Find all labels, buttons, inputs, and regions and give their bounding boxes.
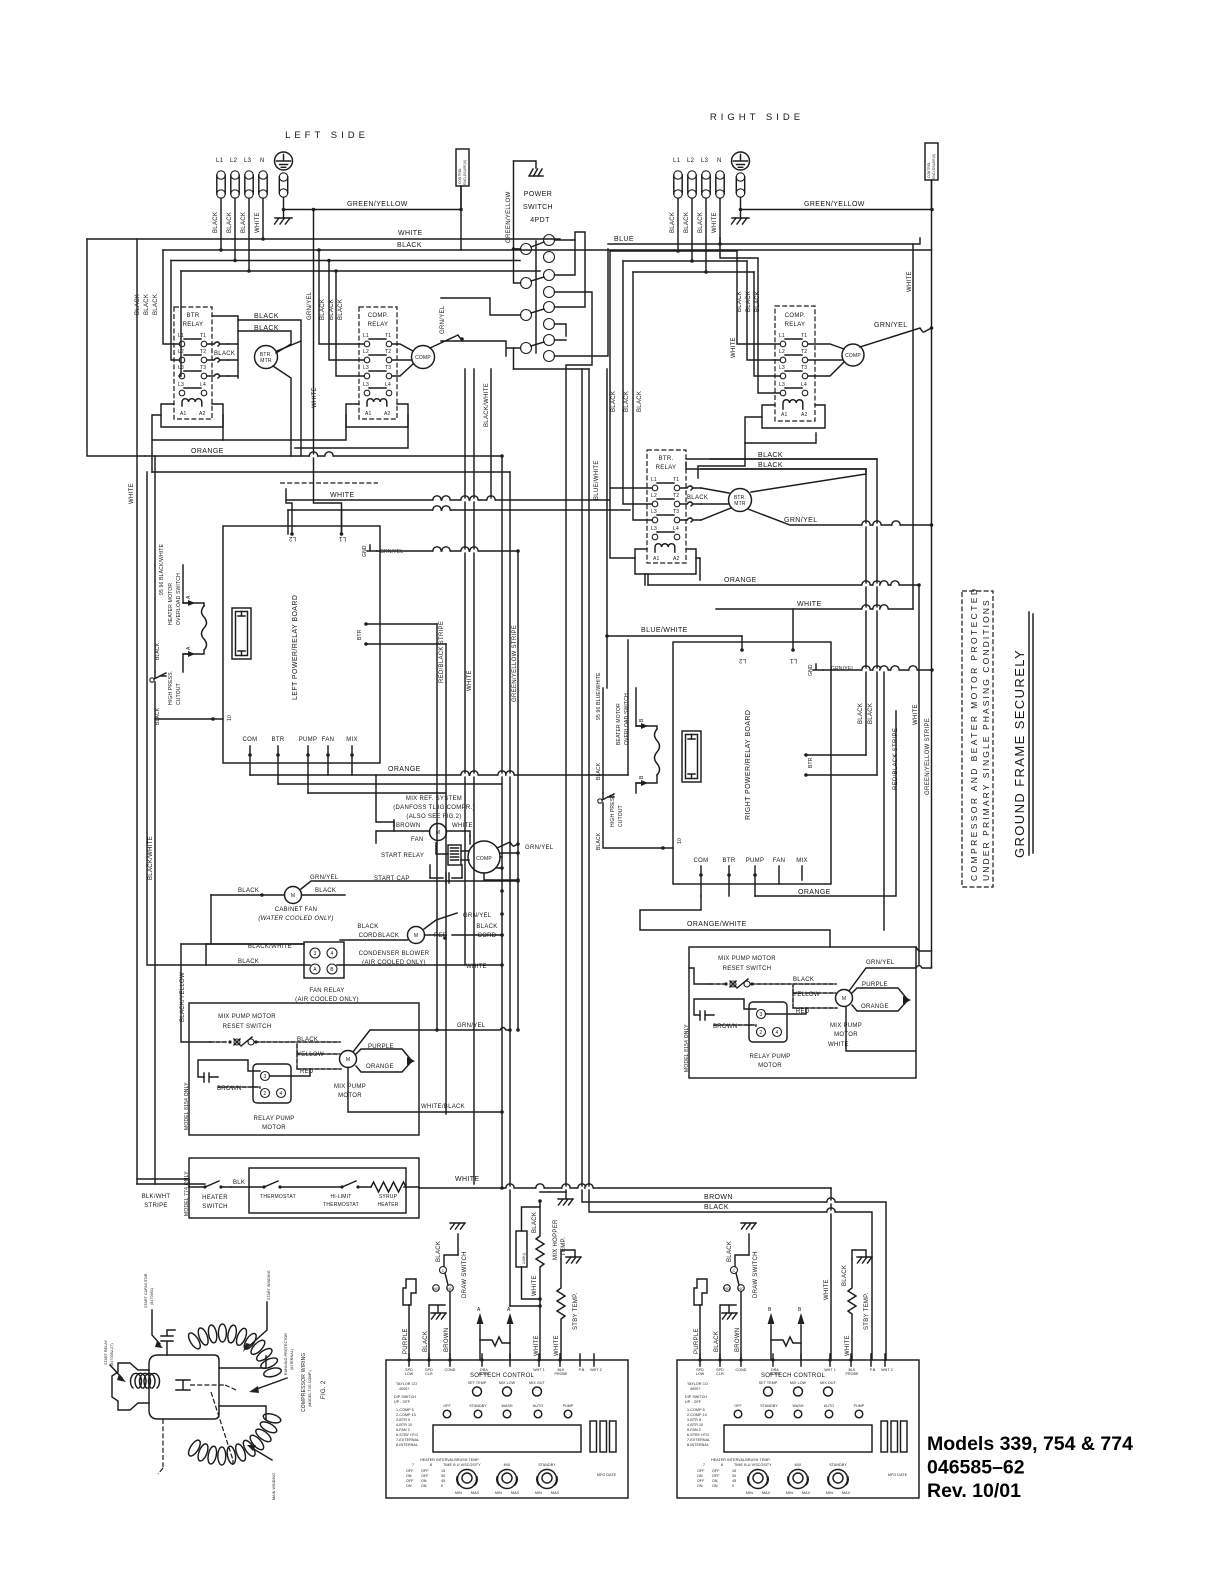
svg-text:L1: L1 bbox=[779, 333, 785, 339]
svg-text:MFG DATE: MFG DATE bbox=[597, 1473, 617, 1477]
svg-text:MODEL 8154 ONLY: MODEL 8154 ONLY bbox=[684, 1024, 690, 1072]
wire ORANGE (left relays) bbox=[145, 455, 502, 457]
knob mix bbox=[498, 1470, 517, 1489]
trunk BLK/WHT STRIPE (left) bbox=[154, 719, 156, 1184]
softech control panel (left) bbox=[386, 1354, 628, 1498]
svg-text:MTR: MTR bbox=[260, 358, 272, 364]
wire white out heater bbox=[406, 1112, 831, 1188]
svg-text:SET TEMP: SET TEMP bbox=[759, 1381, 778, 1385]
svg-text:1-COMP 5: 1-COMP 5 bbox=[687, 1408, 705, 1412]
panel terminals (left panel) bbox=[409, 1354, 594, 1366]
motor M mix pump (right) bbox=[836, 990, 853, 1007]
svg-text:MAX: MAX bbox=[842, 1491, 851, 1495]
coil BTR relay (right) bbox=[655, 544, 675, 552]
svg-text:RELAY: RELAY bbox=[785, 322, 806, 328]
svg-text:L3: L3 bbox=[363, 365, 369, 371]
svg-text:FAN: FAN bbox=[322, 737, 335, 743]
svg-text:TAYLOR CO: TAYLOR CO bbox=[687, 1382, 708, 1386]
svg-text:240K(): 240K() bbox=[522, 1253, 526, 1264]
svg-text:MIX PUMP MOTOR: MIX PUMP MOTOR bbox=[718, 956, 776, 962]
right mix grn/yel to trunk bbox=[916, 947, 932, 951]
svg-text:MTR: MTR bbox=[734, 501, 746, 507]
board outputs distribution (left) bbox=[250, 775, 628, 793]
svg-text:8: 8 bbox=[721, 1463, 723, 1467]
svg-text:T2: T2 bbox=[673, 493, 679, 499]
svg-text:OFF: OFF bbox=[734, 1404, 742, 1408]
svg-text:2: 2 bbox=[760, 1030, 763, 1036]
svg-text:MIX OUT: MIX OUT bbox=[820, 1381, 836, 1385]
svg-text:GRN/YEL: GRN/YEL bbox=[440, 305, 446, 334]
trunk WHITE (left outer) bbox=[136, 239, 138, 1184]
svg-text:BLACK: BLACK bbox=[254, 325, 279, 332]
trunk white right bbox=[912, 244, 914, 609]
wire condenser blower bbox=[340, 913, 502, 940]
svg-text:A: A bbox=[477, 1307, 481, 1313]
stby temp resistor (left softech) bbox=[557, 1259, 565, 1360]
svg-text:WHITE: WHITE bbox=[534, 1335, 540, 1356]
black wire + ground (left softech) bbox=[429, 1305, 445, 1360]
main winding coil arc (bottom) bbox=[186, 1412, 282, 1465]
stby temp resistor (right softech) bbox=[848, 1259, 856, 1360]
svg-text:GRN/YEL: GRN/YEL bbox=[525, 845, 554, 851]
svg-text:WHT 1: WHT 1 bbox=[824, 1368, 836, 1372]
svg-text:3-BTR 5: 3-BTR 5 bbox=[396, 1418, 410, 1422]
svg-text:WHITE: WHITE bbox=[913, 704, 919, 725]
earth ground symbol (left) bbox=[275, 210, 292, 219]
wires BTR relay to motor bbox=[212, 316, 238, 378]
G_LEFT_RELAYS bbox=[135, 250, 464, 456]
purple flag connector (right) bbox=[694, 1279, 707, 1305]
wire BLACK bus (left) bbox=[163, 249, 932, 251]
svg-text:MOTOR: MOTOR bbox=[262, 1125, 286, 1131]
svg-text:DIP SWITCH: DIP SWITCH bbox=[394, 1395, 416, 1399]
terminal L2 (right) bbox=[688, 171, 696, 179]
svg-text:T3: T3 bbox=[385, 365, 391, 371]
svg-text:WASH: WASH bbox=[501, 1404, 512, 1408]
banner purple/orange (right) bbox=[852, 988, 908, 1011]
svg-text:ON: ON bbox=[406, 1474, 412, 1478]
svg-text:L1: L1 bbox=[338, 535, 346, 541]
svg-text:6-STBY HTG: 6-STBY HTG bbox=[687, 1433, 709, 1437]
svg-text:HEATER INTERVAL: HEATER INTERVAL bbox=[711, 1458, 745, 1462]
left power relay board bbox=[223, 526, 380, 763]
svg-text:BLUE/WHITE: BLUE/WHITE bbox=[641, 627, 688, 634]
wire ground drop (right) bbox=[740, 197, 742, 209]
svg-text:L3: L3 bbox=[651, 509, 657, 515]
svg-text:GREEN/YELLOW: GREEN/YELLOW bbox=[804, 201, 865, 208]
wire GRN/YEL from COMP (right) bbox=[860, 328, 932, 347]
svg-text:95 96 BLUE/WHITE: 95 96 BLUE/WHITE bbox=[596, 672, 602, 720]
svg-text:BLACK: BLACK bbox=[320, 299, 326, 320]
wire GRN/YEL from BTR MTR (right) bbox=[748, 509, 932, 525]
svg-text:CLR: CLR bbox=[716, 1372, 724, 1376]
motor BTR MTR (right) bbox=[729, 489, 752, 512]
svg-text:HEATER MOTOR: HEATER MOTOR bbox=[168, 583, 174, 625]
svg-text:BLACK: BLACK bbox=[227, 212, 233, 233]
svg-text:BLACK: BLACK bbox=[329, 299, 335, 320]
mix pump assembly box (right) bbox=[689, 947, 916, 1078]
svg-text:COMP.: COMP. bbox=[785, 313, 805, 319]
relay BTR RELAY (left) bbox=[174, 307, 212, 419]
wire row y510 (left mid) bbox=[288, 509, 630, 511]
svg-text:B: B bbox=[798, 1307, 802, 1313]
svg-text:30: 30 bbox=[441, 1474, 445, 1478]
svg-text:BLACK: BLACK bbox=[357, 924, 378, 930]
svg-text:ENCLOSURE(S): ENCLOSURE(S) bbox=[932, 154, 936, 179]
wire BLUE bus (right) bbox=[608, 238, 920, 244]
svg-text:8: 8 bbox=[430, 1463, 432, 1467]
svg-text:GREEN/YELLOW STRIPE: GREEN/YELLOW STRIPE bbox=[512, 625, 518, 702]
G_NOTES bbox=[927, 587, 1133, 1502]
svg-text:T2: T2 bbox=[385, 349, 391, 355]
svg-text:MIN: MIN bbox=[455, 1491, 462, 1495]
svg-text:BLACK: BLACK bbox=[155, 707, 161, 725]
svg-text:BLK: BLK bbox=[233, 1180, 245, 1186]
svg-text:TEMP.: TEMP. bbox=[561, 1237, 567, 1256]
trunk center pair down to softech bbox=[582, 369, 886, 1360]
svg-text:STRIPE: STRIPE bbox=[144, 1203, 167, 1209]
svg-text:WHITE: WHITE bbox=[467, 670, 473, 691]
svg-text:ON: ON bbox=[406, 1484, 412, 1488]
reset switch (right) bbox=[710, 983, 793, 985]
terminal T inside bbox=[176, 1380, 190, 1390]
svg-text:Models 339, 754 & 774: Models 339, 754 & 774 bbox=[927, 1433, 1133, 1455]
leader start capacitor bbox=[152, 1310, 160, 1344]
svg-text:(ALSO SEE FIG.2): (ALSO SEE FIG.2) bbox=[406, 814, 461, 820]
svg-text:BLACK: BLACK bbox=[868, 703, 874, 724]
wire hop bumps bbox=[309, 452, 917, 1214]
wire GND GRN/YEL (right) bbox=[823, 669, 932, 671]
svg-text:RIGHT POWER/RELAY BOARD: RIGHT POWER/RELAY BOARD bbox=[745, 710, 752, 820]
wire GRN/YEL from COMP (left) bbox=[430, 335, 462, 348]
svg-text:SYRUP: SYRUP bbox=[379, 1194, 398, 1200]
svg-text:L2: L2 bbox=[651, 493, 657, 499]
svg-text:COM: COM bbox=[243, 737, 258, 743]
svg-text:GROUND FRAME SECURELY: GROUND FRAME SECURELY bbox=[1012, 649, 1027, 858]
svg-text:RUNNING PROTECTOR: RUNNING PROTECTOR bbox=[284, 1333, 288, 1375]
svg-text:ORANGE: ORANGE bbox=[861, 1004, 889, 1010]
svg-text:C: C bbox=[733, 1269, 736, 1273]
svg-text:SET TEMP: SET TEMP bbox=[468, 1381, 487, 1385]
svg-text:COM: COM bbox=[694, 858, 709, 864]
svg-text:GREEN/YELLOW: GREEN/YELLOW bbox=[347, 201, 408, 208]
svg-text:LOW: LOW bbox=[696, 1372, 705, 1376]
switch actuator bar bbox=[535, 241, 537, 353]
svg-text:3: 3 bbox=[314, 951, 317, 957]
svg-text:GRN/YEL: GRN/YEL bbox=[310, 875, 339, 881]
svg-text:MAIN WINDING: MAIN WINDING bbox=[272, 1473, 276, 1500]
svg-text:WHITE: WHITE bbox=[907, 271, 913, 292]
svg-text:AUTO: AUTO bbox=[824, 1404, 834, 1408]
svg-text:L2: L2 bbox=[288, 535, 296, 541]
svg-text:4: 4 bbox=[331, 951, 334, 957]
svg-text:2-COMP 10: 2-COMP 10 bbox=[687, 1413, 707, 1417]
svg-text:BLACK: BLACK bbox=[532, 1212, 538, 1233]
svg-text:BLACK: BLACK bbox=[254, 313, 279, 320]
svg-text:BLACK/YELLOW: BLACK/YELLOW bbox=[180, 972, 186, 1022]
svg-text:BLACK: BLACK bbox=[758, 462, 783, 469]
svg-text:MODEL 8154 ONLY: MODEL 8154 ONLY bbox=[184, 1082, 190, 1130]
svg-text:BLACK: BLACK bbox=[624, 391, 630, 412]
motor COMP (right) bbox=[842, 344, 864, 366]
fan relay block bbox=[304, 942, 344, 978]
svg-text:PUMP: PUMP bbox=[854, 1404, 865, 1408]
svg-text:3: 3 bbox=[264, 1074, 267, 1080]
svg-text:COMPRESSOR AND BEATER MOTOR PR: COMPRESSOR AND BEATER MOTOR PROTECTED bbox=[969, 587, 979, 881]
svg-text:ON: ON bbox=[697, 1484, 703, 1488]
right trunk black pair bbox=[710, 459, 877, 775]
svg-text:UNDER PRIMARY SINGLE PHASING C: UNDER PRIMARY SINGLE PHASING CONDITIONS bbox=[981, 598, 991, 881]
relay pump motor block (left) bbox=[253, 1064, 291, 1103]
G_SOFTECH bbox=[386, 1192, 919, 1498]
wires above right softech bbox=[694, 1223, 872, 1360]
capacitor (right pump) bbox=[700, 1011, 714, 1020]
svg-text:BLACK: BLACK bbox=[670, 212, 676, 233]
svg-text:BLACK: BLACK bbox=[596, 762, 602, 780]
wires reset to motor (left) bbox=[297, 1042, 341, 1069]
svg-text:L4: L4 bbox=[385, 382, 391, 388]
svg-text:GREEN/YELLOW STRIPE: GREEN/YELLOW STRIPE bbox=[925, 718, 931, 795]
svg-text:PROBE: PROBE bbox=[554, 1372, 568, 1376]
svg-text:NO: NO bbox=[724, 1287, 730, 1291]
svg-text:CABINET FAN: CABINET FAN bbox=[275, 907, 318, 913]
pole2 in wire bbox=[514, 249, 521, 283]
wire black/yellow (left pump feed) bbox=[181, 944, 210, 1042]
pole1 in wire bbox=[514, 248, 521, 250]
control enclosure label box (left) bbox=[456, 149, 469, 186]
svg-text:CORD: CORD bbox=[478, 933, 497, 939]
svg-text:HIGH PRESS.: HIGH PRESS. bbox=[168, 671, 174, 705]
start capacitor symbol bbox=[161, 1330, 175, 1355]
overload connector block bbox=[232, 608, 251, 659]
svg-text:L3: L3 bbox=[244, 158, 252, 164]
svg-text:BLACK: BLACK bbox=[338, 299, 344, 320]
svg-text:WHITE: WHITE bbox=[129, 483, 135, 504]
contact marks BTR relay (left) bbox=[207, 342, 228, 346]
svg-text:ENCLOSURE(S): ENCLOSURE(S) bbox=[463, 160, 467, 185]
warning box compressor/beater protected bbox=[962, 591, 993, 887]
mode led row bbox=[734, 1410, 742, 1418]
svg-text:BTR: BTR bbox=[272, 737, 285, 743]
svg-text:P.B.: P.B. bbox=[579, 1368, 586, 1372]
svg-text:L2: L2 bbox=[687, 158, 695, 164]
coil COMP relay (left) bbox=[367, 399, 387, 406]
board terminal L2 (left board) bbox=[291, 510, 293, 534]
cabinet fan M bbox=[285, 887, 302, 904]
svg-text:YELLOW: YELLOW bbox=[297, 1052, 324, 1058]
coil outer box BTR (left) bbox=[161, 404, 223, 427]
svg-text:ON: ON bbox=[421, 1484, 427, 1488]
svg-text:ON: ON bbox=[712, 1479, 718, 1483]
switch pole 2 bbox=[521, 278, 532, 289]
svg-text:WHITE: WHITE bbox=[845, 1335, 851, 1356]
svg-text:GRN/YEL: GRN/YEL bbox=[307, 291, 313, 320]
svg-text:T2: T2 bbox=[200, 349, 206, 355]
svg-text:ON: ON bbox=[697, 1474, 703, 1478]
svg-text:RESET SWITCH: RESET SWITCH bbox=[723, 966, 772, 972]
G_MIXREF bbox=[206, 796, 554, 1003]
svg-text:ORANGE: ORANGE bbox=[724, 577, 757, 584]
svg-text:7: 7 bbox=[703, 1463, 705, 1467]
svg-text:BRUSH TEMP.: BRUSH TEMP. bbox=[745, 1458, 770, 1462]
svg-text:(8470052-27): (8470052-27) bbox=[110, 1343, 114, 1366]
svg-text:BLACK: BLACK bbox=[858, 703, 864, 724]
svg-text:MIX: MIX bbox=[796, 858, 808, 864]
svg-text:4-BTR 10: 4-BTR 10 bbox=[396, 1423, 412, 1427]
svg-text:THERMOSTAT: THERMOSTAT bbox=[260, 1194, 296, 1200]
svg-text:SOFTECH CONTROL: SOFTECH CONTROL bbox=[470, 1373, 535, 1379]
svg-text:BTR: BTR bbox=[187, 313, 200, 319]
svg-text:A1: A1 bbox=[781, 412, 788, 418]
compressor body (fig 2) bbox=[149, 1355, 219, 1419]
softech control panel (right) bbox=[677, 1354, 919, 1498]
wire BLUE/WHITE into L2 bbox=[607, 635, 742, 637]
svg-text:SWITCH: SWITCH bbox=[202, 1204, 227, 1210]
svg-text:CONTROL: CONTROL bbox=[458, 168, 462, 184]
svg-text:T3: T3 bbox=[673, 509, 679, 515]
svg-text:4000?: 4000? bbox=[690, 1387, 701, 1391]
terminal N (left) bbox=[259, 171, 267, 179]
svg-text:L4: L4 bbox=[673, 526, 679, 532]
svg-text:OVERLOAD SWITCH: OVERLOAD SWITCH bbox=[176, 573, 182, 625]
svg-text:4000?: 4000? bbox=[399, 1387, 410, 1391]
svg-text:MAX: MAX bbox=[511, 1491, 520, 1495]
wire GREEN/YELLOW bus (right) bbox=[741, 209, 933, 211]
svg-text:6-STBY HTG: 6-STBY HTG bbox=[396, 1433, 418, 1437]
svg-text:WHITE: WHITE bbox=[824, 1279, 830, 1300]
trunk RED/BLACK STRIPE (left) bbox=[436, 624, 438, 1030]
svg-text:TIME: TIME bbox=[443, 1463, 452, 1467]
svg-text:PUMP: PUMP bbox=[746, 858, 765, 864]
svg-text:BROWN: BROWN bbox=[735, 1328, 741, 1353]
board terminal 10 bbox=[212, 718, 223, 720]
wire GRN/YEL out (left box) bbox=[353, 1028, 510, 1053]
svg-text:BLACK: BLACK bbox=[704, 1204, 729, 1211]
heater assembly box (model 774) bbox=[189, 1158, 419, 1218]
svg-text:GRN/YEL: GRN/YEL bbox=[831, 666, 854, 672]
overload element wavy bbox=[202, 606, 207, 650]
wire WHITE bus (left) bbox=[87, 238, 560, 240]
svg-text:UP - OFF: UP - OFF bbox=[685, 1400, 702, 1404]
svg-text:4-BTR 10: 4-BTR 10 bbox=[687, 1423, 703, 1427]
svg-text:(8470051): (8470051) bbox=[150, 1288, 154, 1305]
svg-text:HI-LIMIT: HI-LIMIT bbox=[330, 1194, 351, 1200]
svg-text:45: 45 bbox=[732, 1479, 736, 1483]
svg-text:CONDENSER BLOWER: CONDENSER BLOWER bbox=[359, 951, 430, 957]
svg-text:WHITE: WHITE bbox=[554, 1335, 560, 1356]
wire ground drop bbox=[283, 197, 285, 209]
ground terminal symbol (left) bbox=[275, 152, 293, 170]
svg-text:PURPLE: PURPLE bbox=[403, 1328, 409, 1354]
svg-text:(DANFOSS TL3G COMPR.): (DANFOSS TL3G COMPR.) bbox=[393, 805, 475, 811]
svg-text:RED/BLACK STRIPE: RED/BLACK STRIPE bbox=[893, 728, 899, 790]
svg-text:FAN: FAN bbox=[411, 837, 424, 843]
svg-text:OFF: OFF bbox=[697, 1469, 705, 1473]
svg-text:START CAPACITOR: START CAPACITOR bbox=[144, 1273, 148, 1308]
trunk BLACK/WHITE (left) bbox=[154, 456, 156, 565]
relay COMP RELAY (right) bbox=[775, 306, 815, 421]
svg-text:MIX PUMP MOTOR: MIX PUMP MOTOR bbox=[218, 1014, 276, 1020]
G_PUMPBOXES bbox=[184, 947, 932, 1135]
svg-text:WHITE: WHITE bbox=[466, 964, 487, 970]
wire GRN/YEL out (right box) bbox=[849, 966, 932, 992]
svg-text:M: M bbox=[842, 996, 846, 1002]
svg-text:MIX LOW: MIX LOW bbox=[790, 1381, 807, 1385]
svg-text:WHITE: WHITE bbox=[398, 230, 423, 237]
svg-text:L3: L3 bbox=[701, 158, 709, 164]
svg-text:HIGH PRESS.: HIGH PRESS. bbox=[610, 793, 616, 827]
start winding coil arc (top) bbox=[186, 1324, 282, 1378]
black wire + ground (right softech) bbox=[720, 1305, 736, 1360]
svg-text:B: B bbox=[639, 718, 645, 722]
svg-text:MOTOR: MOTOR bbox=[758, 1063, 782, 1069]
switch pole 4 bbox=[521, 343, 532, 354]
svg-text:0: 0 bbox=[732, 1484, 734, 1488]
svg-text:2: 2 bbox=[264, 1091, 267, 1097]
svg-text:OFF: OFF bbox=[406, 1479, 414, 1483]
wire GRN/YEL (comp right) bbox=[497, 842, 518, 848]
wire GREEN/YELLOW bus (left) bbox=[284, 209, 462, 211]
svg-text:MIN: MIN bbox=[535, 1491, 542, 1495]
mode led row bbox=[443, 1410, 451, 1418]
mix hopper bracket + ground bbox=[540, 1192, 566, 1198]
wire L2 drop bbox=[234, 198, 236, 260]
svg-text:COND: COND bbox=[736, 1368, 747, 1372]
svg-text:ON: ON bbox=[712, 1484, 718, 1488]
control enclosure label box (right) bbox=[925, 143, 938, 180]
svg-text:BLACK/WHITE: BLACK/WHITE bbox=[484, 383, 490, 427]
svg-text:MIX PUMP: MIX PUMP bbox=[334, 1084, 366, 1090]
svg-text:RED/BLACK STRIPE: RED/BLACK STRIPE bbox=[439, 621, 445, 683]
svg-text:BLACK: BLACK bbox=[238, 959, 259, 965]
relay BTR RELAY (right) bbox=[647, 450, 686, 563]
svg-text:NO: NO bbox=[433, 1287, 439, 1291]
svg-text:BLACK: BLACK bbox=[241, 212, 247, 233]
svg-text:7-EXTERNAL: 7-EXTERNAL bbox=[687, 1438, 710, 1442]
svg-text:BLACK: BLACK bbox=[727, 1241, 733, 1262]
svg-text:10: 10 bbox=[227, 715, 233, 721]
wire GND grn/yel (left board) bbox=[377, 550, 518, 552]
svg-text:GRN/YEL: GRN/YEL bbox=[380, 549, 403, 555]
dashed row (left mid) bbox=[280, 482, 378, 484]
trunk WHITE (left center) bbox=[465, 369, 474, 1184]
svg-text:WHITE: WHITE bbox=[255, 212, 261, 233]
svg-text:RELAY PUMP: RELAY PUMP bbox=[749, 1054, 790, 1060]
svg-text:Rev. 10/01: Rev. 10/01 bbox=[927, 1480, 1021, 1502]
svg-text:L3: L3 bbox=[178, 382, 184, 388]
svg-text:A: A bbox=[313, 967, 317, 973]
svg-text:COND: COND bbox=[445, 1368, 456, 1372]
switch pole 3 bbox=[521, 310, 532, 321]
svg-text:5-FAN 2: 5-FAN 2 bbox=[687, 1428, 701, 1432]
svg-text:MAX: MAX bbox=[551, 1491, 560, 1495]
svg-text:BLACK: BLACK bbox=[737, 291, 743, 312]
svg-text:BEATER MOTOR: BEATER MOTOR bbox=[616, 703, 622, 745]
status led row bbox=[764, 1387, 773, 1396]
wire L3 drop bbox=[248, 198, 250, 271]
svg-text:STANDBY: STANDBY bbox=[469, 1404, 487, 1408]
wires COMP relay T to motor (right) bbox=[808, 344, 844, 376]
board BTR stubs bbox=[364, 622, 368, 626]
svg-text:BLACK: BLACK bbox=[793, 977, 814, 983]
svg-text:L4: L4 bbox=[801, 382, 807, 388]
svg-text:L3: L3 bbox=[651, 526, 657, 532]
hi-limit thermostat bbox=[340, 1185, 343, 1188]
svg-text:STANDBY: STANDBY bbox=[538, 1463, 556, 1467]
svg-text:M: M bbox=[346, 1057, 350, 1063]
terminal L3 (left) bbox=[245, 171, 253, 179]
svg-text:POWER: POWER bbox=[524, 191, 552, 198]
